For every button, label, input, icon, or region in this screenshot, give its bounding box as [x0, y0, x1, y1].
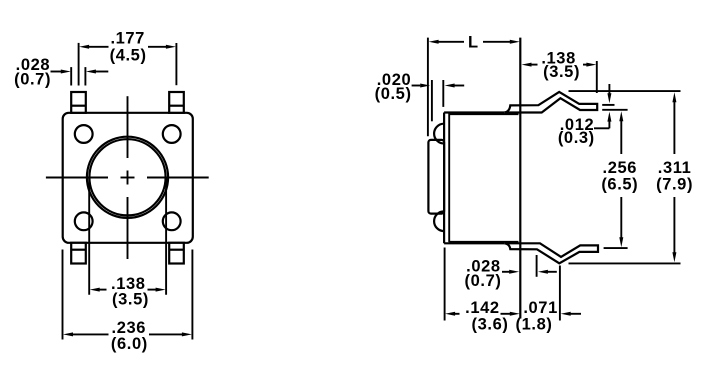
bottom lead: [504, 243, 598, 263]
svg-text:.177: .177: [110, 30, 145, 48]
svg-text:.142: .142: [465, 299, 500, 317]
dim .028 (0.7) pin width : extension lines: [71, 67, 85, 85]
dim .071 (1.8) : arrow: [561, 312, 571, 316]
button inner circle: [89, 139, 165, 215]
dim .028 (0.7) lead at seating : extension line: [536, 255, 538, 277]
corner circle bottom-right: [163, 212, 181, 230]
svg-text:.256: .256: [603, 159, 638, 177]
dim L : extension line + arrows: [427, 38, 429, 137]
dim .028 arrows: [502, 271, 510, 273]
button stem (side): [428, 140, 444, 214]
svg-text:(1.8): (1.8): [516, 316, 553, 334]
bottom reference line (lead valley level): [569, 262, 681, 264]
svg-text:(6.0): (6.0): [111, 335, 148, 353]
svg-text:(3.5): (3.5): [543, 63, 580, 81]
lead thickness ticks: [602, 105, 627, 248]
svg-text:.071: .071: [523, 299, 558, 317]
dim .138 (3.5) button dia : extension lines: [89, 177, 166, 294]
switch body (rounded square): [63, 113, 193, 243]
corner circle top-right: [163, 125, 181, 143]
dim .142 (3.6) : extension lines: [445, 248, 560, 321]
vertical centerline: [127, 96, 129, 259]
svg-text:(6.5): (6.5): [601, 176, 638, 194]
svg-text:.311: .311: [658, 159, 692, 177]
dim .236 (6.0) body width : extension lines: [63, 250, 193, 340]
seating plane vertical line: [519, 38, 521, 319]
pin bottom-left: [71, 243, 86, 264]
dim .311 (7.9) : dimension line + arrows: [672, 92, 676, 102]
svg-text:(0.7): (0.7): [465, 272, 502, 290]
svg-text:(3.5): (3.5): [112, 290, 149, 308]
dim .177 (4.5) : extension lines: [79, 43, 177, 86]
dim .142 arrows: [445, 312, 455, 316]
pin bottom-right: [169, 243, 184, 264]
pin top-right: [169, 92, 184, 113]
svg-text:(0.3): (0.3): [558, 129, 595, 147]
button outer circle: [87, 137, 168, 218]
svg-text:(3.6): (3.6): [472, 316, 509, 334]
svg-text:(0.7): (0.7): [14, 71, 51, 89]
svg-text:L: L: [468, 33, 479, 51]
dim .138 (3.5) lead length : extension line: [596, 61, 598, 93]
body outline: [444, 113, 504, 244]
dim .138 arrows: [522, 63, 532, 67]
dim .028 arrows: [51, 71, 62, 73]
stem bump bottom: [434, 211, 444, 231]
dim .012 (0.3) lead thickness : arrows: [608, 84, 610, 94]
corner circle top-left: [75, 125, 93, 143]
body inner liner: [449, 114, 518, 243]
top lead: [504, 92, 597, 113]
horizontal centerline: [46, 177, 209, 179]
stem bump top: [434, 124, 444, 144]
top reference line (lead peak level): [569, 90, 681, 92]
svg-text:(0.5): (0.5): [375, 85, 412, 103]
corner circle bottom-left: [75, 212, 93, 230]
dim .020 (0.5) : extension lines: [432, 80, 443, 121]
dim .236 dimension line + arrows: [63, 332, 73, 336]
dim .138 dimension line + arrows: [90, 288, 100, 292]
dim .177 dimension line + arrows: [79, 45, 89, 49]
pin top-left: [71, 92, 86, 113]
svg-text:(4.5): (4.5): [110, 47, 147, 65]
svg-text:(7.9): (7.9): [656, 176, 693, 194]
dim .256 (6.5) : dimension line + arrows: [619, 111, 623, 121]
dim .020 arrows: [412, 85, 421, 87]
